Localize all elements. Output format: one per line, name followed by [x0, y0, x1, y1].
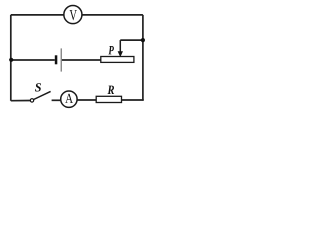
node: junction dot on right wire	[141, 38, 145, 42]
battery cell: long thin positive plate	[61, 48, 62, 71]
ammeter label A	[65, 94, 73, 103]
wire: top side right of voltmeter	[82, 14, 143, 16]
battery cell: short thick negative plate	[55, 55, 58, 64]
switch label S	[35, 83, 41, 91]
wire: resistor to bottom right corner	[122, 99, 143, 102]
resistor label R	[107, 86, 114, 94]
wire: right vertical side	[142, 15, 144, 101]
node: junction dot on left wire	[9, 58, 13, 62]
wire: switch to ammeter	[52, 99, 61, 101]
potentiometer label P	[108, 46, 114, 54]
ammeter circle	[61, 91, 77, 107]
wire: top side left of voltmeter	[11, 14, 64, 16]
resistor R body box	[96, 96, 121, 102]
wire: middle branch from left wire to battery	[11, 59, 55, 61]
wire: left vertical side	[10, 15, 12, 101]
switch S lever	[34, 91, 51, 99]
wire: bottom left corner to switch	[11, 100, 31, 102]
voltmeter U-V circle	[64, 6, 82, 24]
wire: ammeter to resistor	[77, 99, 96, 101]
wire: battery to potentiometer	[62, 59, 101, 61]
potentiometer P body box	[101, 57, 134, 63]
switch S pivot circle	[30, 99, 33, 102]
potentiometer wiper arrow	[119, 40, 121, 53]
wire: wiper to right side	[120, 39, 143, 41]
voltmeter label V	[70, 10, 77, 20]
